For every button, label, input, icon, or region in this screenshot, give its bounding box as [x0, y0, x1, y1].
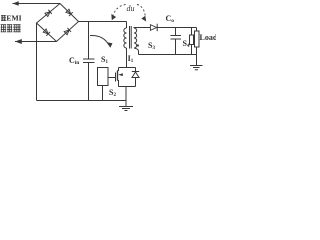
controller IC U1	[98, 68, 109, 86]
ground secondary	[190, 66, 203, 70]
diode D1 top-left	[45, 10, 52, 17]
wire AC input bottom	[15, 41, 57, 43]
transformer T1 primary winding	[124, 28, 127, 48]
svg-text:Cin: Cin	[69, 56, 79, 66]
wire gate	[108, 77, 116, 79]
diode D3 bottom-left	[43, 29, 50, 36]
svg-text:S1: S1	[101, 55, 108, 65]
svg-text:S2: S2	[109, 88, 116, 98]
ground primary	[125, 87, 127, 107]
wire DC minus drop	[36, 23, 38, 101]
diode D4 bottom-right	[64, 28, 71, 35]
label EMI filter line2	[1, 25, 21, 32]
arrow current loop primary	[90, 35, 109, 45]
arrow noise direction top	[13, 1, 19, 6]
wire bottom rail primary side	[37, 100, 127, 102]
wire top rail DC plus	[79, 21, 127, 23]
wire secondary bottom lead	[134, 48, 139, 55]
wire drain node	[119, 67, 136, 69]
label EMI filter line1	[1, 15, 6, 20]
resistor R1 output	[191, 28, 193, 36]
svg-text:S4: S4	[183, 39, 190, 49]
wire secondary top lead	[134, 27, 150, 30]
wire primary bottom lead	[126, 48, 128, 68]
svg-text:EMI: EMI	[6, 14, 21, 23]
svg-text:Load: Load	[200, 33, 217, 42]
transformer core	[130, 26, 132, 49]
diode D5 output	[150, 25, 156, 31]
capacitor Co output	[175, 28, 177, 36]
bridge rectifier diamond	[37, 4, 79, 42]
arc dashed du coupling	[113, 5, 127, 17]
wire load top lead	[196, 28, 198, 32]
wire IC ground lead	[102, 86, 104, 101]
diode D2 top-right	[66, 9, 73, 16]
svg-text:I1: I1	[128, 54, 134, 64]
diode zener clamp	[135, 68, 137, 73]
polarity dot secondary	[137, 44, 139, 46]
wire secondary bottom rail	[139, 54, 197, 56]
wire AC input top	[13, 3, 61, 5]
svg-text:S3: S3	[148, 41, 155, 51]
capacitor Cin	[88, 22, 90, 60]
wire primary top lead	[126, 22, 128, 29]
resistor R load	[195, 31, 200, 47]
transistor Q1 MOSFET	[115, 73, 117, 82]
arrow noise direction bottom	[15, 39, 22, 44]
wire source node	[119, 86, 136, 88]
svg-text:Co: Co	[166, 14, 175, 24]
transformer T1 secondary winding	[134, 28, 137, 48]
wire output top	[157, 27, 197, 29]
wire load bottom lead	[196, 47, 198, 66]
svg-text:du: du	[127, 4, 135, 13]
